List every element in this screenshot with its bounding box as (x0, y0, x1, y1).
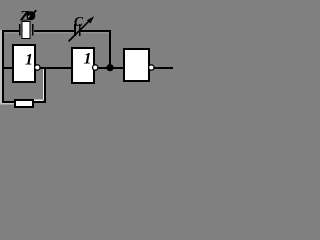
logic gate 3 box (124, 49, 149, 81)
wire: resistor to feedback riser (34, 101, 46, 103)
crystal ZQ body (22, 22, 30, 39)
wire highlight above bottom wire right segment (34, 100, 43, 102)
wire: junction to gate 3 input (110, 67, 124, 69)
wire: left vertical rail (2, 30, 4, 103)
junction dot (106, 64, 113, 71)
wire highlight below bottom wire left segment (0, 103, 14, 105)
resistor body (15, 100, 33, 107)
capacitor C right plate (79, 24, 81, 36)
logic gate 1 box (13, 45, 35, 82)
capacitor C left plate (74, 24, 76, 36)
crystal ZQ left plate (19, 24, 21, 36)
crystal ZQ right plate (32, 24, 34, 36)
wire: gate 3 output to right edge (154, 67, 173, 69)
wire: feedback riser down to resistor wire (44, 68, 46, 103)
background (0, 0, 173, 109)
wire: top horizontal, capacitor to corner (81, 30, 112, 32)
wire: right vertical riser to junction (109, 30, 111, 67)
wire: top horizontal, crystal to capacitor (34, 30, 74, 32)
capacitor C adjustment arrow (69, 16, 95, 41)
logic gate 2 box (72, 48, 94, 83)
wire: gate 1 output to gate 2 input (41, 67, 73, 69)
svg-text:1: 1 (84, 51, 92, 68)
gate 1 output bubble (35, 65, 40, 70)
wire: top horizontal, rail to crystal (2, 30, 19, 32)
gate 3 output bubble (149, 65, 154, 70)
wire highlight below top wire (2, 32, 111, 34)
wire: rail to resistor (2, 101, 15, 103)
wire: gate 2 output to junction (99, 67, 110, 69)
label ZQ (quartz crystal) (19, 8, 36, 24)
svg-text:1: 1 (25, 52, 33, 69)
wire highlight left of rail (0, 30, 2, 104)
gate 2 output bubble (93, 65, 98, 70)
wire highlight left of feedback riser (43, 69, 44, 100)
wire: rail to gate 1 input (4, 67, 13, 69)
